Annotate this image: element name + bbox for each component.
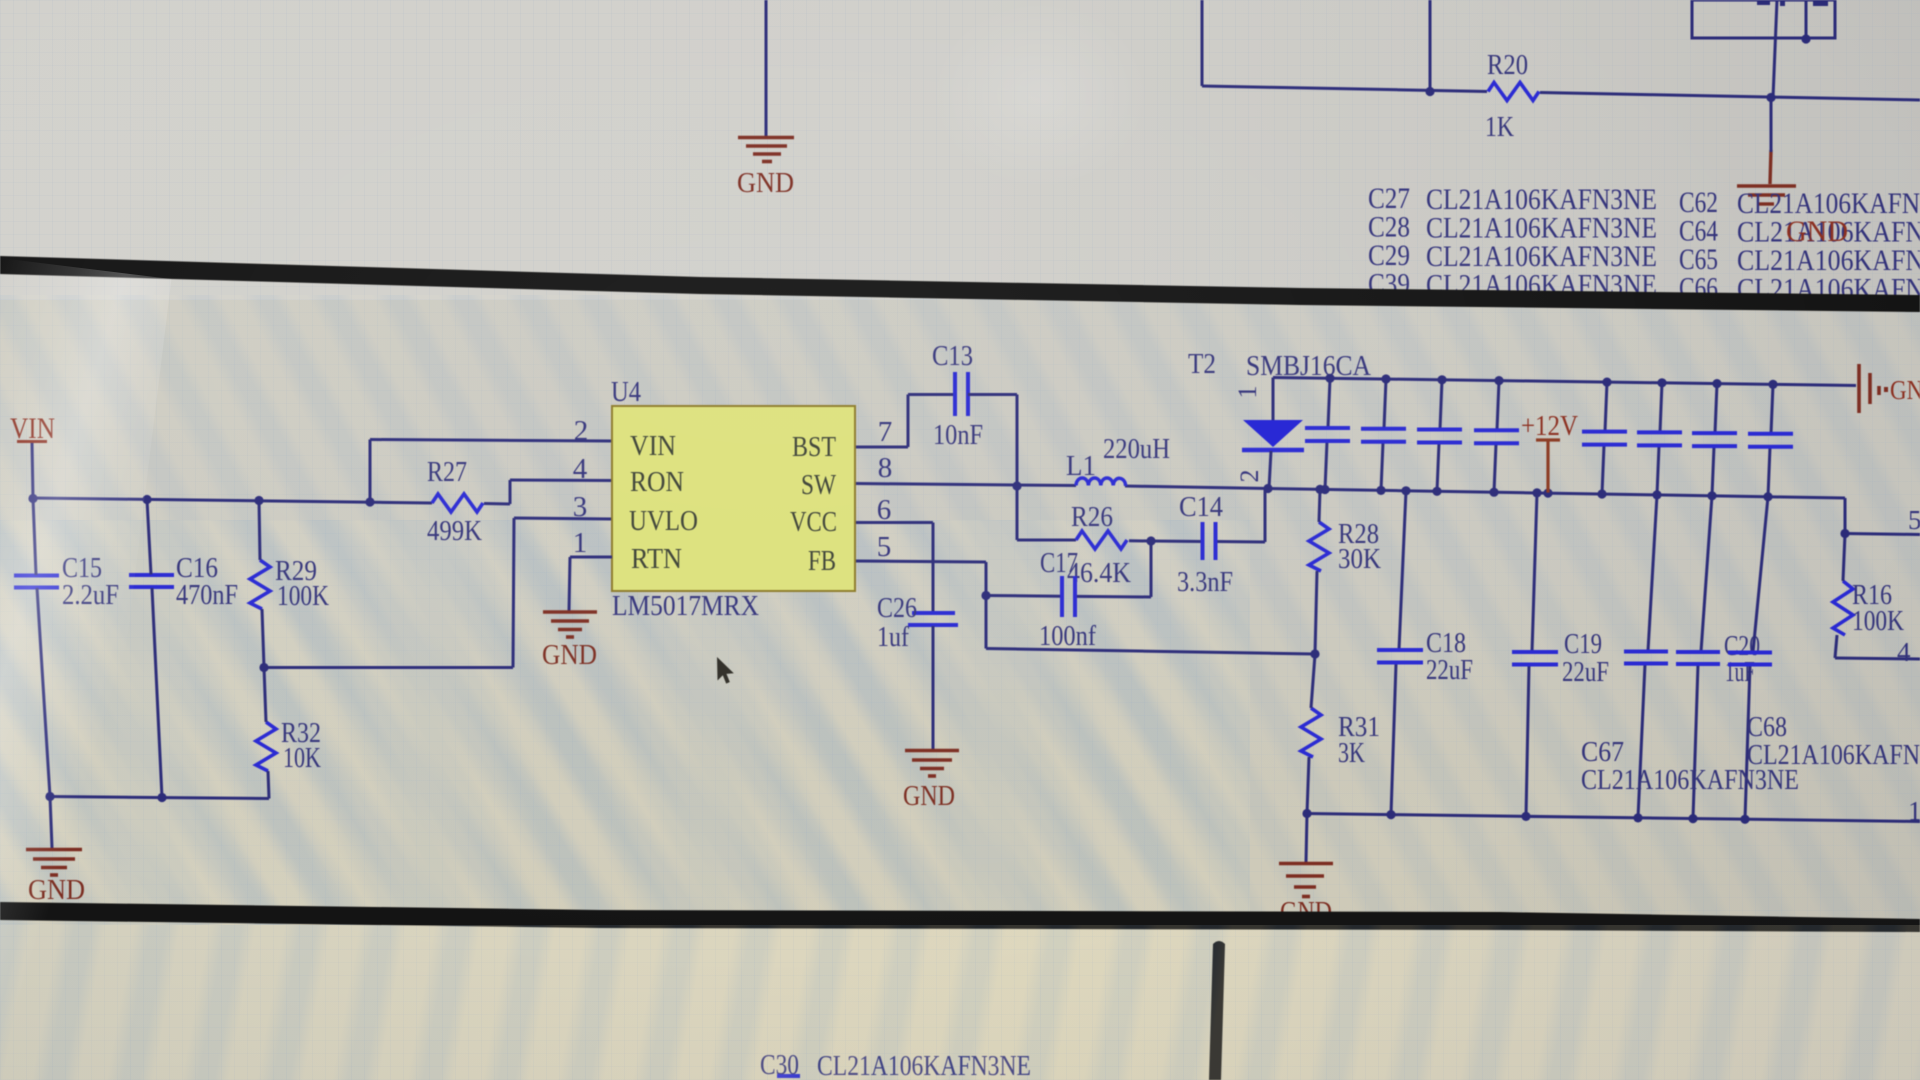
junction dot R26/C14/C17 node [1146,536,1155,545]
label C13 [932,341,973,372]
junction dots on +12V rail [1263,484,1849,538]
resistor R32 [256,722,276,771]
sheet border bar (top, black) [0,256,1920,312]
pin number 3 [573,491,588,523]
capacitor bank C2 (top row 2) [1381,379,1386,490]
label C20 [1724,631,1760,662]
pin number 1 (bottom right edge) [1908,796,1920,826]
junction dots on R20 net [1425,87,1775,102]
label R28 [1338,519,1379,550]
value 220uH [1103,434,1170,465]
value 3K [1338,738,1365,769]
wire: T2 leads [1269,378,1273,489]
wire: R26 from SW node [1017,486,1151,541]
value 3.3nF [1177,567,1233,598]
pin number 7 [878,416,893,448]
wire: C26 to GND [932,626,935,749]
label C67 [1581,737,1624,768]
wire: R27 to U4 pin 4 [510,480,612,504]
capacitor list text C27/C62 row [1368,182,1920,220]
value 2.2uF [62,580,119,611]
wire: VIN input bus [33,498,510,504]
sheet border bar (vertical, bottom sheet) [1209,941,1225,1080]
pin number 5 [877,531,892,563]
value 22uF (C19) [1562,657,1609,688]
op-amp U4 body (LM5017MRX) [612,406,855,591]
junction dots on bottom ground bus [1302,809,1749,824]
wire: bottom ground bus [1307,814,1920,822]
label GND (bottom-left) [28,875,85,906]
capacitor C14 [1203,522,1216,560]
pin number 1 (T2, rotated) [1233,386,1262,399]
value 30K [1338,544,1381,575]
label C18 [1426,628,1466,659]
resistor R16 [1833,581,1853,635]
wire: stem to GND (bottom-left) [50,797,52,849]
diode T2 (TVS SMBJ16CA) [1242,420,1304,450]
capacitor bank C3 (top row 3) [1437,380,1442,492]
pin number 6 [877,494,892,526]
pin number 2 (T2, rotated) [1235,470,1264,483]
value 22uF (C18) [1426,655,1473,686]
label GND (sideways ground) [1890,375,1920,405]
wire: U4 pin 1 RTN to ground [569,557,612,611]
label T2 [1188,349,1216,380]
value 100K (R16) [1852,606,1904,637]
junction dot FB/C17 branch [981,591,990,600]
capacitor C18 [1391,491,1406,815]
label R29 [275,556,317,587]
value CL21A106KAFN (C68, clipped) [1747,740,1920,771]
text fragments clipped at top edge [1757,0,1828,6]
capacitor list text C29/C65 row [1368,239,1920,277]
capacitor list text C39/C66 row [1368,268,1920,306]
pin name RON [630,466,684,498]
label C26 [877,593,917,624]
pin name RTN [631,543,682,575]
pin name BST [792,431,836,463]
wire: R32 leads [264,668,269,799]
label C14 [1179,492,1223,523]
label R20 [1487,50,1528,81]
wire: VIN stem to input bus [32,443,33,498]
inductor L1 [1076,478,1126,486]
label C19 [1564,629,1602,660]
resistor R31 [1301,708,1321,757]
capacitor C19 [1526,493,1537,817]
label C68 [1747,712,1787,743]
label GND (under R31) [1280,897,1332,928]
wire: U4 pin 6 VCC to C26 [856,523,933,613]
power port +12V [1521,411,1578,442]
wire: top GND rail [1273,378,1856,386]
value CL21A106KAFN3NE (C67) [1581,765,1799,796]
pin number 4 [573,453,588,485]
value 100K [277,581,329,612]
capacitor bank C7 (top row 7) [1712,384,1717,496]
wire: C15 leads [33,499,50,797]
ground GND symbol (under RTN) [543,612,597,637]
wire: R28 leads [1315,489,1320,654]
wire: stem to GND (under R31) [1306,814,1307,863]
label GND (under C26) [903,781,955,812]
ground GND symbol (under C26) [905,751,959,777]
wire: R31 leads [1307,655,1315,814]
value 10nF [933,420,983,451]
label R32 [281,718,321,749]
pin number 8 [878,452,893,484]
value CL21A106KAFN3NE (C30) [817,1050,1031,1080]
VIN port bar [17,440,47,443]
value SMBJ16CA [1246,351,1372,382]
pin name VCC [790,506,837,538]
label R31 [1338,712,1380,743]
label C30 (bottom sheet) [760,1049,799,1080]
pin name VIN [630,430,676,462]
capacitor C26 [908,613,958,625]
capacitor C68 (column c) [1745,497,1768,820]
pin number 1 [573,527,588,559]
junction dot FB divider node [1310,649,1319,658]
resistor R28 [1309,522,1329,571]
capacitor C16 [129,575,174,587]
capacitor bank C6 (top row 6) [1657,383,1662,495]
wire: U4 pin 5 FB net [856,541,1315,654]
value 1K [1485,112,1514,143]
label LM5017MRX [612,590,759,622]
value 10K [283,743,321,774]
junction dot R29/R32/UVLO node [259,663,268,672]
label GND (top sheet) [737,168,794,199]
wire: stem from R20 net to GND port [1770,98,1773,153]
pin wires of top-right box [1773,0,1806,98]
label L1 [1066,451,1096,482]
label R16 [1852,580,1892,611]
label GND (under RTN) [542,640,597,671]
value 46.4K [1067,558,1131,589]
wire: R29 leads [259,501,264,668]
wire: C16 leads [147,500,162,798]
capacitor bank C8 (top row 8) [1768,384,1773,496]
capacitor list text C28/C64 row [1368,211,1920,249]
value 1uf [877,622,910,653]
pin number 4 (right edge) [1897,637,1911,667]
pin name UVLO [629,505,698,537]
junction dots on top GND rail [1325,374,1777,389]
resistor R26 [1076,531,1127,549]
junction dots on bottom-left ground bus [45,792,166,802]
capacitor bank C5 (top row 5) [1602,382,1607,494]
value 499K [427,516,482,547]
pin name FB [808,545,836,577]
power port VIN [10,412,55,445]
junction dot SW/C13/R26 [1012,481,1021,490]
label GND (red, overlapping C64 row) [1786,215,1848,248]
capacitor bank C4 (top row 4) [1494,381,1499,493]
wire: C13 to SW node [968,395,1017,487]
wire: R16 leads and pin 4 stub [1835,534,1920,660]
resistor R20 [1488,83,1539,101]
junction dots on VIN bus [28,494,374,507]
ground GND symbol (top sheet, x=766) [738,138,794,162]
value 1uF (C20) [1725,657,1755,688]
ground GND symbol (sideways, right edge of top rail) [1859,364,1888,413]
capacitor C15 [14,576,59,588]
wire: net with R20 (top sheet) [1202,0,1920,100]
capacitor C13 [955,372,968,416]
wire: U4 pin 3 UVLO to R29/R32 node [264,518,612,668]
resistor R27 [432,494,483,512]
capacitor C20 (column b) [1693,496,1712,819]
wire: U4 pin 7 BST to C13 [856,395,954,448]
capacitor C17 [1062,576,1075,617]
label C15 [62,553,102,584]
wire: bottom-left ground bus [50,797,269,799]
ground GND symbol (bottom-left) [26,850,82,876]
wire: bus to U4 pin 2 [370,440,612,503]
capacitor C30 plate (clipped at bottom) [777,1074,800,1078]
label U4 [611,377,641,408]
wire: node to C14 [1151,489,1265,543]
capacitor C67 (column a) [1638,495,1657,818]
resistor R29 [250,560,270,609]
pin number 2 [574,415,589,447]
pin name SW [801,469,837,501]
label R27 [427,457,467,488]
component box (top-right connector fragment) [1692,0,1835,38]
power port GND (below R20 net) [1737,150,1796,204]
wire: U4 pin 8 SW rail [856,484,1268,489]
ground GND symbol (under R31) [1279,864,1333,897]
wire: +12V output rail [1268,489,1920,535]
capacitor bank C1 (top row 1) [1325,378,1330,489]
sheet border bar (bottom, black) [0,902,1920,932]
wire: vertical net into GND (top sheet) [765,0,768,136]
value 100nf [1039,621,1097,652]
label R26 [1071,502,1113,533]
value 470nF [176,580,238,611]
label C16 [176,553,218,584]
mouse cursor [717,657,734,684]
label C17 [1040,548,1078,579]
pin number 5 (right edge) [1908,505,1920,535]
junction dot on box pin [1801,34,1810,43]
